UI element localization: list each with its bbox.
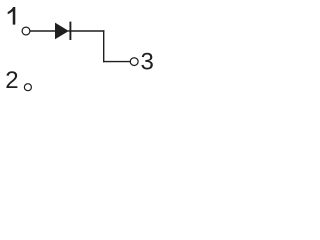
svg-text:2: 2 [5,67,18,94]
diode D1 cathode bar [69,22,71,40]
wire vertical segment [103,30,105,62]
wire pin1 to diode anode [30,30,56,32]
terminal circle pin 1 [22,27,30,35]
diode D1 anode triangle [55,23,69,40]
pin label 1 [8,7,16,25]
wire corner to pin 3 [103,61,131,63]
terminal circle pin 3 [130,58,138,66]
svg-text:3: 3 [141,49,154,76]
wire diode cathode to corner [68,30,104,32]
terminal circle pin 2 [24,84,31,91]
